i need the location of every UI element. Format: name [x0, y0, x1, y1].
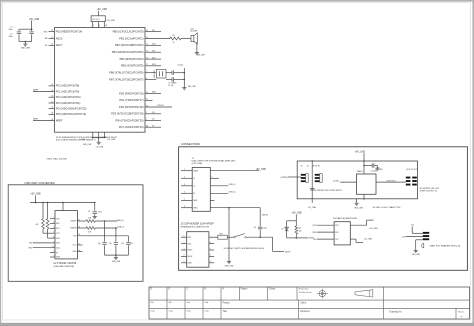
svg-text:GND_USB: GND_USB [225, 265, 234, 267]
svg-text:26: 26 [51, 101, 53, 103]
svg-text:GND_USB: GND_USB [188, 86, 197, 88]
svg-text:J4: J4 [307, 166, 309, 168]
svg-text:5: 5 [184, 199, 185, 201]
svg-text:C6 22p: C6 22p [178, 65, 184, 67]
svg-text:U4 LED LOGIC 74AHCT125: U4 LED LOGIC 74AHCT125 [373, 206, 402, 209]
svg-text:PB5 (SCK/PCINT5): PB5 (SCK/PCINT5) [121, 64, 144, 68]
svg-text:5: 5 [184, 261, 185, 263]
svg-text:D7: D7 [152, 125, 154, 127]
svg-text:1k: 1k [173, 42, 175, 44]
svg-text:PB3 (MOSI/OC2A/PCINT3): PB3 (MOSI/OC2A/PCINT3) [112, 50, 144, 54]
svg-text:27R: 27R [88, 217, 92, 219]
svg-text:21: 21 [146, 125, 148, 127]
svg-text:3rd: 3rd [187, 301, 191, 304]
svg-text:4P WS2812 LED STRIP INPUT: 4P WS2812 LED STRIP INPUT [314, 190, 343, 192]
svg-text:RXD: RXD [335, 232, 339, 234]
svg-text:A: A [223, 288, 225, 291]
svg-text:GND_USB: GND_USB [21, 48, 31, 50]
svg-text:+5V_USB: +5V_USB [96, 147, 104, 149]
svg-text:47p: 47p [109, 243, 112, 245]
svg-text:29: 29 [51, 30, 53, 32]
svg-text:RTS: RTS [56, 228, 60, 230]
svg-text:J5 4P 5V OUT: J5 4P 5V OUT [406, 169, 418, 171]
svg-text:47p: 47p [98, 243, 101, 245]
svg-text:22: 22 [51, 44, 53, 46]
svg-text:DTR: DTR [335, 225, 339, 227]
svg-text:SCK: SCK [188, 243, 192, 245]
svg-text:D-: D- [193, 178, 195, 180]
svg-text:Filename: Filename [300, 311, 310, 313]
svg-text:+5V_USB: +5V_USB [256, 169, 267, 171]
svg-text:PC0 (ADC0/PCINT8): PC0 (ADC0/PCINT8) [56, 85, 80, 88]
svg-text:PD7 (AIN1/PCINT23): PD7 (AIN1/PCINT23) [119, 125, 144, 129]
svg-text:AREF: AREF [33, 89, 39, 92]
svg-text:PB4 (MISO/PCINT4): PB4 (MISO/PCINT4) [120, 57, 144, 61]
svg-text:Title: Title [223, 310, 228, 313]
svg-text:J3: J3 [301, 166, 303, 168]
svg-text:+5V_USB: +5V_USB [364, 239, 373, 241]
svg-text:USB-UART CONVERTER: USB-UART CONVERTER [25, 181, 55, 185]
svg-text:PD2 (INT0/PCINT18): PD2 (INT0/PCINT18) [119, 105, 144, 109]
svg-text:J2 ICSP HEADER 2x3P AVRISP: J2 ICSP HEADER 2x3P AVRISP [181, 223, 215, 226]
svg-text:(STROUT): (STROUT) [387, 180, 396, 182]
svg-text:(STRIN): (STRIN) [281, 177, 288, 179]
svg-text:+5V_USB: +5V_USB [291, 213, 302, 215]
svg-text:4k7: 4k7 [36, 224, 39, 226]
svg-text:of: of [461, 316, 463, 318]
svg-text:Project: Project [223, 301, 231, 304]
svg-text:28: 28 [51, 113, 53, 115]
svg-text:100n: 100n [9, 36, 13, 38]
svg-text:(PINHEADER 2.54MM PITCH): (PINHEADER 2.54MM PITCH) [181, 226, 210, 229]
svg-text:C9: C9 [88, 211, 90, 213]
svg-text:25: 25 [51, 96, 53, 98]
svg-text:PC1 (ADC1/PCINT9): PC1 (ADC1/PCINT9) [56, 90, 80, 93]
svg-text:D8: D8 [152, 30, 154, 32]
svg-text:74AHCT: 74AHCT [357, 170, 363, 173]
svg-text:13: 13 [146, 37, 148, 39]
svg-text:PC2 (ADC2/PCINT10): PC2 (ADC2/PCINT10) [56, 96, 81, 99]
svg-text:CONNECTORS: CONNECTORS [181, 142, 200, 146]
svg-text:8: 8 [146, 78, 147, 80]
svg-text:PD1 (TXD/PCINT17): PD1 (TXD/PCINT17) [119, 98, 143, 102]
svg-text:Drawing No: Drawing No [390, 310, 403, 313]
svg-text:GND_USB: GND_USB [112, 261, 121, 263]
svg-text:D: D [169, 289, 171, 291]
svg-text:24: 24 [51, 90, 53, 92]
svg-text:GND: GND [188, 263, 193, 265]
svg-text:RXD: RXD [313, 232, 318, 234]
svg-text:Drawn: Drawn [241, 288, 248, 291]
svg-text:27R: 27R [88, 232, 92, 234]
svg-text:C3 C4 C5: C3 C4 C5 [92, 19, 99, 21]
svg-text:R2: R2 [173, 35, 175, 37]
svg-text:2: 2 [184, 177, 185, 179]
svg-text:PB2 (SS/OC1B/PCINT2): PB2 (SS/OC1B/PCINT2) [115, 43, 144, 47]
svg-text:AREF: AREF [56, 119, 63, 122]
svg-text:19: 19 [51, 37, 53, 39]
svg-text:U2 FT232RL SSOP28: U2 FT232RL SSOP28 [54, 263, 77, 265]
svg-text:MOSI: MOSI [188, 256, 193, 258]
svg-text:NRST: NRST [33, 119, 39, 121]
svg-text:4P 5V IN: 4P 5V IN [313, 166, 321, 168]
svg-text:ID: ID [193, 193, 195, 195]
svg-text:RST: RST [44, 31, 49, 33]
svg-text:11: 11 [53, 237, 55, 239]
svg-text:PB7 (XTAL2/TOSC2/PCINT7): PB7 (XTAL2/TOSC2/PCINT7) [109, 77, 143, 81]
svg-text:C: C [187, 289, 189, 291]
svg-text:Sheet: Sheet [458, 310, 464, 313]
svg-text:Chg: Chg [187, 311, 192, 313]
svg-text:+5V_USB: +5V_USB [107, 139, 116, 141]
svg-text:D12: D12 [152, 57, 155, 59]
svg-text:Chg: Chg [151, 311, 156, 313]
svg-text:PD0 (RXD/PCINT16): PD0 (RXD/PCINT16) [119, 91, 143, 95]
svg-text:18: 18 [105, 25, 107, 27]
svg-text:VCC: VCC [73, 245, 77, 247]
svg-text:GND: GND [193, 200, 198, 202]
svg-text:D4: D4 [152, 119, 154, 121]
svg-text:D1: D1 [281, 228, 283, 230]
svg-text:S1 RESET SWITCH (OMRON B3F-10: S1 RESET SWITCH (OMRON B3F-1000) [224, 248, 265, 250]
svg-text:C12: C12 [130, 243, 133, 245]
svg-text:C1: C1 [10, 27, 12, 29]
svg-text:Check: Check [269, 289, 276, 291]
svg-text:10: 10 [53, 246, 55, 248]
svg-text:100n: 100n [98, 212, 102, 214]
svg-text:PD3 (INT1/OC2B/PCINT19): PD3 (INT1/OC2B/PCINT19) [111, 112, 143, 116]
svg-text:TXD: TXD [29, 243, 33, 245]
svg-text:GND: GND [72, 251, 77, 253]
svg-text:U3 UART BUFFER 4050: U3 UART BUFFER 4050 [333, 217, 358, 220]
svg-text:7: 7 [146, 71, 147, 73]
svg-text:TXD: TXD [335, 239, 339, 241]
svg-text:(SHLD): (SHLD) [262, 214, 268, 216]
svg-text:20: 20 [51, 119, 53, 121]
svg-text:Chg: Chg [205, 311, 210, 313]
svg-text:A6: A6 [45, 37, 47, 40]
svg-text:PD4 (T0/XCK/PCINT20): PD4 (T0/XCK/PCINT20) [116, 118, 144, 122]
svg-text:RXI: RXI [402, 236, 406, 238]
svg-text:E: E [151, 289, 153, 291]
svg-text:3: 3 [184, 184, 185, 186]
svg-text:ADC6: ADC6 [56, 37, 63, 40]
svg-text:RXD: RXD [56, 223, 60, 225]
svg-text:3V3: 3V3 [73, 236, 76, 238]
svg-text:BUZZER: BUZZER [191, 31, 199, 33]
svg-text:C8: C8 [254, 227, 256, 229]
svg-text:(OPT-USB): (OPT-USB) [192, 163, 203, 165]
svg-text:+5V_USB: +5V_USB [375, 169, 384, 171]
svg-text:A7: A7 [45, 44, 47, 47]
svg-text:DTR: DTR [56, 238, 60, 240]
svg-text:Projection: Projection [299, 288, 310, 291]
svg-text:FB1: FB1 [220, 233, 223, 235]
svg-text:D10: D10 [152, 44, 155, 46]
svg-text:+5V_USB: +5V_USB [369, 228, 378, 230]
svg-text:USB CONN TYPE B HORIZONTAL SHI: USB CONN TYPE B HORIZONTAL SHIELDED [192, 160, 236, 163]
svg-text:DSR: DSR [56, 243, 60, 245]
svg-text:2: 2 [184, 242, 185, 244]
svg-text:4: 4 [184, 255, 185, 257]
svg-text:RXD: RXD [29, 247, 34, 249]
svg-text:PC6 (RESET/PCINT14): PC6 (RESET/PCINT14) [56, 30, 83, 33]
svg-text:PB0 (ICP1/CLKO/PCINT0): PB0 (ICP1/CLKO/PCINT0) [113, 29, 144, 33]
svg-text:PB6 (XTAL1/TOSC1/PCINT6): PB6 (XTAL1/TOSC1/PCINT6) [109, 71, 143, 75]
svg-text:PC4 (ADC4/SDA/PCINT12): PC4 (ADC4/SDA/PCINT12) [56, 107, 87, 110]
svg-text:BOOTLOADER FLASHED VIA ICSP HE: BOOTLOADER FLASHED VIA ICSP HEADER J2 [56, 138, 96, 141]
svg-text:+5V_USB: +5V_USB [29, 19, 40, 21]
svg-text:4: 4 [93, 25, 94, 27]
svg-text:Client: Client [300, 301, 306, 304]
svg-text:GND: GND [56, 257, 61, 259]
svg-text:B: B [205, 289, 207, 291]
svg-text:PB1 (OC1A/PCINT1): PB1 (OC1A/PCINT1) [119, 36, 143, 40]
svg-text:100n: 100n [9, 29, 13, 31]
svg-text:USB_D+: USB_D+ [117, 220, 125, 222]
svg-text:+5V_USB: +5V_USB [106, 20, 115, 22]
svg-text:XTAL1 XTAL2 and GND: XTAL1 XTAL2 and GND [47, 157, 68, 160]
svg-text:5th: 5th [151, 301, 155, 304]
svg-text:+5V_USB: +5V_USB [308, 207, 317, 209]
svg-text:D+: D+ [193, 186, 195, 188]
svg-text:XTAL 16M: XTAL 16M [153, 70, 156, 79]
svg-text:(USB-UART BRIDGE): (USB-UART BRIDGE) [54, 265, 75, 268]
svg-text:PC3 (ADC3/PCINT11): PC3 (ADC3/PCINT11) [56, 102, 81, 105]
svg-text:GND_USB: GND_USB [412, 254, 421, 256]
svg-text:UART EXT HEADER 3PIN 2.54: UART EXT HEADER 3PIN 2.54 [430, 245, 462, 248]
svg-text:RST: RST [188, 237, 192, 239]
svg-text:RI: RI [56, 252, 58, 254]
svg-text:23: 23 [51, 84, 53, 86]
svg-text:6: 6 [99, 25, 100, 27]
svg-text:STRIP OUTPUT 5V: STRIP OUTPUT 5V [420, 191, 438, 193]
svg-text:D13: D13 [152, 64, 155, 66]
svg-text:RXD: RXD [152, 92, 157, 94]
svg-text:C7 22p: C7 22p [168, 85, 174, 87]
svg-text:USB_D+: USB_D+ [229, 192, 237, 194]
svg-text:GND_USB: GND_USB [354, 208, 363, 210]
svg-text:ADC7: ADC7 [56, 44, 63, 47]
svg-text:1: 1 [184, 169, 185, 171]
svg-text:SHLD: SHLD [193, 207, 198, 209]
svg-text:100n: 100n [263, 227, 267, 229]
svg-text:VBUS: VBUS [193, 170, 199, 172]
svg-text:100nF: 100nF [285, 252, 291, 254]
svg-text:MISO: MISO [188, 250, 193, 252]
svg-text:GND_USB: GND_USB [83, 144, 92, 146]
svg-text:C2: C2 [10, 34, 12, 36]
svg-text:USB_D-: USB_D- [229, 184, 236, 186]
svg-text:GND_USB: GND_USB [196, 54, 205, 56]
svg-text:27: 27 [51, 107, 53, 109]
svg-text:2nd: 2nd [205, 302, 209, 304]
svg-text:USB_D-: USB_D- [117, 226, 124, 228]
svg-text:1: 1 [184, 236, 185, 238]
svg-text:Chg: Chg [169, 311, 174, 313]
svg-text:6: 6 [184, 206, 185, 208]
svg-text:CTS: CTS [56, 233, 60, 235]
svg-text:47p: 47p [121, 243, 124, 245]
svg-text:USBDP: USBDP [70, 221, 77, 223]
svg-text:TXD: TXD [313, 239, 317, 241]
svg-text:NOTE: ATMEGA328P-AU TQFP-32, A: NOTE: ATMEGA328P-AU TQFP-32, ARDUINO UNO… [56, 136, 118, 139]
svg-text:PC5 (ADC5/SCL/PCINT13): PC5 (ADC5/SCL/PCINT13) [56, 113, 87, 116]
svg-text:10k: 10k [299, 231, 302, 233]
svg-text:USBDM: USBDM [70, 228, 77, 230]
svg-text:+5V: +5V [410, 225, 414, 227]
svg-text:TXD/D1: TXD/D1 [157, 105, 164, 107]
svg-text:4: 4 [184, 192, 185, 194]
svg-text:D3: D3 [152, 112, 154, 114]
svg-text:4th: 4th [169, 301, 173, 304]
svg-text:DCD: DCD [56, 247, 61, 249]
svg-text:3: 3 [184, 248, 185, 250]
svg-text:D11: D11 [152, 50, 155, 52]
svg-text:TXD: TXD [56, 218, 60, 220]
svg-text:Do Not Scale: Do Not Scale [299, 291, 313, 294]
svg-text:(CTRL): (CTRL) [333, 180, 340, 182]
svg-text:DTR: DTR [313, 225, 318, 227]
